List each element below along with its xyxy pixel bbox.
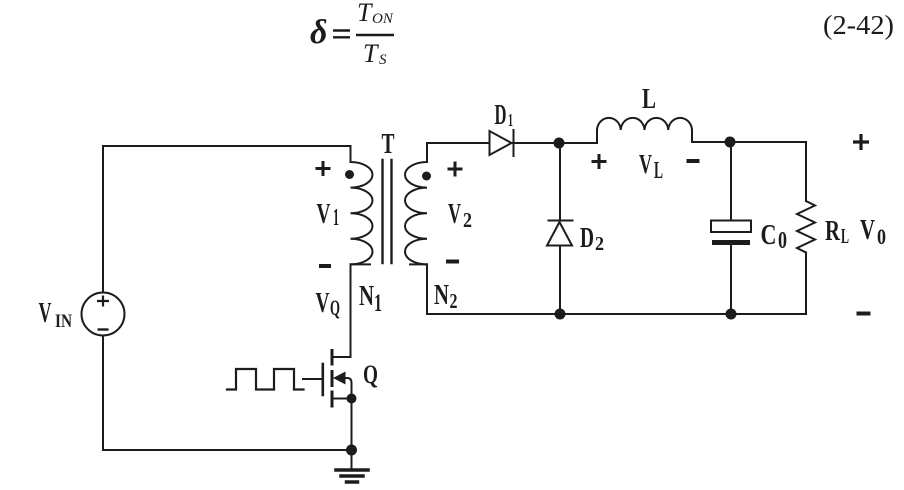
svg-text:D: D — [580, 222, 594, 254]
svg-text:1: 1 — [508, 110, 513, 130]
svg-text:V: V — [860, 214, 875, 246]
svg-text:T: T — [363, 39, 379, 68]
svg-text:Q: Q — [363, 360, 378, 389]
svg-text:T: T — [382, 128, 395, 160]
svg-text:(2-42): (2-42) — [823, 10, 894, 40]
svg-text:V: V — [639, 149, 652, 179]
svg-text:C: C — [761, 219, 777, 251]
svg-text:S: S — [379, 52, 387, 68]
svg-text:2: 2 — [463, 208, 472, 232]
svg-text:N: N — [434, 280, 449, 311]
svg-text:N: N — [359, 281, 374, 312]
svg-text:0: 0 — [778, 228, 787, 254]
svg-text:V: V — [448, 199, 461, 230]
svg-text:V: V — [316, 287, 330, 319]
svg-text:ON: ON — [372, 11, 394, 27]
svg-text:D: D — [495, 100, 507, 131]
svg-text:2: 2 — [450, 289, 458, 313]
svg-text:δ: δ — [310, 14, 327, 51]
svg-text:0: 0 — [877, 224, 886, 249]
svg-text:T: T — [357, 0, 373, 27]
svg-text:V: V — [317, 198, 331, 230]
svg-text:R: R — [825, 215, 841, 247]
svg-text:Q: Q — [330, 295, 340, 320]
svg-text:L: L — [841, 224, 849, 248]
svg-text:L: L — [642, 84, 656, 115]
svg-text:1: 1 — [374, 290, 382, 317]
svg-text:L: L — [654, 158, 663, 184]
svg-text:V: V — [39, 298, 52, 329]
svg-text:2: 2 — [595, 233, 604, 255]
svg-text:1: 1 — [333, 205, 339, 231]
svg-text:IN: IN — [55, 311, 72, 332]
